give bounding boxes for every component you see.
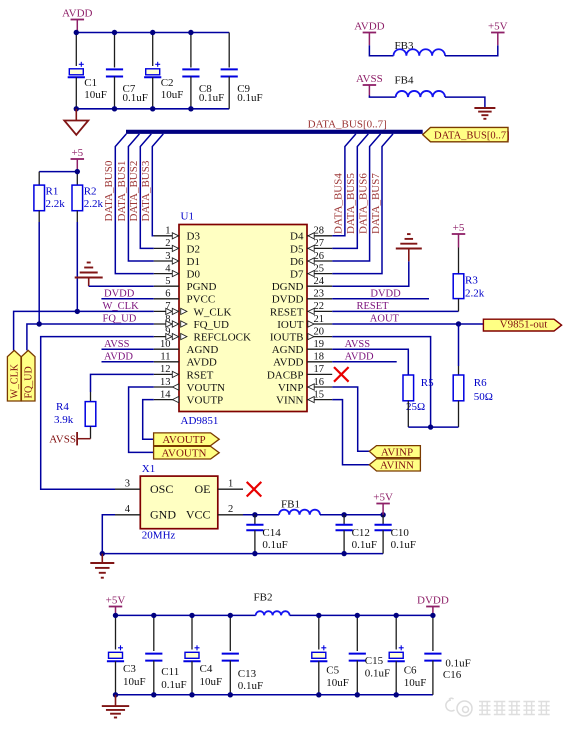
capacitor C15 0.1uF [349,615,390,694]
wire bus entry DATA_BUS6 to pin 26 [332,134,380,261]
junction W_CLK/R2 [75,309,80,314]
wire VINP (pin 16) to AVINP [332,387,369,451]
resistor R6 50ohm [453,324,493,427]
wire REFCLOCK (pin 9 to X1 OSC) [41,337,154,490]
svg-text:DACBP: DACBP [267,369,304,381]
svg-text:D4: D4 [290,231,304,243]
svg-text:16: 16 [314,377,325,388]
wire bus entry DATA_BUS4 to pin 28 [332,134,356,236]
wire top rail of AVDD cap bank [76,32,229,34]
svg-text:FB2: FB2 [254,592,273,604]
svg-text:2: 2 [165,238,170,249]
power +5V (bottom rail) [106,595,126,616]
junction +5V/C10 [380,512,385,517]
svg-text:OE: OE [195,482,211,496]
wire bus entry DATA_BUS5 to pin 27 [332,134,368,249]
svg-text:AVDD: AVDD [345,351,374,362]
wire X1 section bottom rail [102,553,383,555]
svg-text:RESET: RESET [357,301,390,312]
svg-text:VCC: VCC [186,507,211,521]
pin 2 D2 [154,238,200,255]
pin 7 W_CLK [154,301,232,318]
wire X1 GND down to rail [102,515,115,554]
svg-text:25: 25 [314,263,325,274]
junction AOUT/R6 [456,321,461,326]
wire AVSS (pin 19) to R5 [332,349,408,375]
pin 23 DVDD [272,289,332,306]
svg-text:VOUTP: VOUTP [187,395,224,407]
wire VOUTP (pin 14) to AVOUTP [143,400,154,440]
svg-text:10uF: 10uF [84,89,107,101]
pin 27 D5 [290,238,332,255]
ground (bottom rail) [102,695,129,718]
ground (DGND) [396,234,422,261]
pin 24 DGND [272,276,332,293]
svg-text:FQ_UD: FQ_UD [194,319,230,331]
svg-text:0.1uF: 0.1uF [238,680,263,692]
pin 8 FQ_UD [154,314,229,331]
svg-text:DATA_BUS[0..7]: DATA_BUS[0..7] [308,119,387,131]
capacitor C6 10uF [388,615,427,694]
wire bus entry DATA_BUS7 to pin 25 [332,134,393,274]
wire AVDD (pin 18) [332,361,397,363]
wire bottom top rail right [290,614,433,616]
port FQ_UD (vertical) [21,350,35,401]
svg-text:GND: GND [150,507,176,521]
svg-text:DATA_BUS[0..7]: DATA_BUS[0..7] [434,131,510,142]
capacitor C11 0.1uF [145,615,186,694]
svg-text:DATA_BUS4: DATA_BUS4 [333,173,345,234]
capacitor C8 0.1uF [182,33,224,109]
capacitor C2 10uF [144,33,183,109]
svg-text:AGND: AGND [187,344,219,356]
junction C12 bottom [341,551,346,556]
svg-text:22: 22 [314,301,325,312]
junction dots on AVDD rails [74,30,194,112]
svg-text:VINP: VINP [278,382,304,394]
svg-text:24: 24 [314,276,325,287]
svg-text:4: 4 [165,263,171,274]
svg-text:C4: C4 [200,663,213,675]
ferrite bead FB2 [254,592,290,616]
junction +5/R1/R2 [75,169,80,174]
svg-text:28: 28 [314,226,325,237]
svg-text:VOUTN: VOUTN [187,382,226,394]
svg-text:R5: R5 [421,377,434,389]
svg-text:RSET: RSET [187,369,214,381]
wire FQ_UD (pin 8) [27,324,154,350]
wire AVSS (pin 10) [102,348,154,350]
svg-text:DVDD: DVDD [417,595,449,607]
pin 13 VOUTN [154,377,225,394]
junction X1 gnd rail [100,551,105,556]
svg-text:D7: D7 [290,269,304,281]
svg-text:+5: +5 [453,222,465,234]
svg-text:14: 14 [160,389,171,400]
oscillator X1 20MHz body [140,463,218,542]
pin 20 IOUTB [270,326,332,343]
svg-text:AVOUTP: AVOUTP [162,434,205,446]
svg-text:D2: D2 [187,243,200,255]
svg-text:AVINP: AVINP [381,446,413,458]
wire VINN (pin 15) to AVINN [332,400,369,465]
svg-text:0.1uF: 0.1uF [237,92,262,104]
capacitor C10 0.1uF [375,515,416,554]
svg-text:17: 17 [314,364,325,375]
pin 3 D1 [154,251,200,268]
svg-text:AVDD: AVDD [354,21,384,33]
wire PGND [89,285,154,287]
svg-text:C13: C13 [238,668,257,680]
capacitor C4 10uF [183,615,222,694]
port AVOUTN [154,446,220,459]
wire VCC to FB1 row [243,514,279,516]
watermark text [479,702,550,715]
svg-text:V9851-out: V9851-out [500,318,548,330]
svg-text:AVSS: AVSS [356,73,383,85]
capacitor C16 0.1uF [424,615,470,694]
power DVDD (bottom rail) [417,595,449,616]
svg-text:1: 1 [165,226,170,237]
svg-text:19: 19 [314,339,325,350]
ground (X1) [90,554,114,578]
svg-text:12: 12 [160,364,171,375]
pin 2 VCC [218,504,243,515]
svg-text:10uF: 10uF [404,677,427,689]
svg-text:20: 20 [314,326,325,337]
svg-text:DATA_BUS6: DATA_BUS6 [357,173,369,234]
capacitor C14 0.1uF [246,515,287,554]
svg-text:4: 4 [125,504,131,515]
resistor R3 2.2k [453,248,485,312]
svg-text:OSC: OSC [150,482,173,496]
pin 5 PGND [154,276,217,293]
svg-text:W_CLK: W_CLK [103,301,140,312]
power +5 (R3 pullup) [452,222,466,248]
wire bus entry DATA_BUS1 to pin 3 [128,134,153,261]
port AVINP [369,446,420,459]
svg-text:DGND: DGND [272,281,304,293]
pin 1 D3 [154,226,201,243]
capacitor C7 0.1uF [106,33,148,109]
capacitor C9 0.1uF [221,33,263,109]
wire R5/R6 bottom link [408,426,458,428]
pin 6 PVCC [154,289,215,306]
wire bottom top rail left [116,614,256,616]
wire DGND (pin 24) to ground [332,261,409,286]
power +5 (R1 R2 pullups) [71,147,85,172]
wire IOUTB (pin 20) [332,337,430,428]
capacitor C3 10uF [107,615,146,694]
wire AVDD to FB3 [369,45,393,56]
svg-text:2.2k: 2.2k [465,288,485,300]
svg-text:6: 6 [165,289,170,300]
svg-text:D0: D0 [187,269,201,281]
svg-text:AVSS: AVSS [49,434,76,446]
svg-text:C3: C3 [123,663,136,675]
svg-text:D3: D3 [187,231,201,243]
wire bottom rail of AVDD cap bank [76,108,229,110]
pin 26 D6 [290,251,332,268]
no-connect X on pin 17 DACBP [334,367,349,382]
svg-text:D1: D1 [187,256,200,268]
wire W_CLK (pin 7) [14,311,154,350]
wire +5 to R1/R2 [39,171,77,173]
svg-text:C10: C10 [391,527,410,539]
svg-text:2.2k: 2.2k [84,198,104,210]
wire DVDD (pin 6) [101,298,153,300]
svg-text:AVINN: AVINN [380,460,414,472]
power AVSS (below R4) [49,432,90,446]
svg-text:R3: R3 [465,275,478,287]
svg-text:2.2k: 2.2k [46,198,66,210]
svg-text:W_CLK: W_CLK [10,363,21,398]
power AVDD (filter FB3) [354,21,384,46]
svg-text:C5: C5 [326,665,339,677]
power +5V (FB1) [373,492,393,515]
wire DVDD (pin 23) [332,298,429,300]
svg-text:RESET: RESET [270,306,304,318]
svg-text:D6: D6 [290,256,304,268]
svg-text:C16: C16 [443,669,462,681]
svg-text:AVSS: AVSS [104,339,130,350]
svg-text:11: 11 [160,352,170,363]
svg-text:13: 13 [160,377,171,388]
svg-text:0.1uF: 0.1uF [365,668,390,680]
ground (PGND pin 5) [75,263,103,287]
wire FB1 to +5V [320,514,383,516]
svg-text:FQ_UD: FQ_UD [103,314,137,325]
svg-text:C6: C6 [404,665,417,677]
junction FQ_UD/R1 [37,321,42,326]
svg-text:AVSS: AVSS [345,339,371,350]
wire VOUTN (pin 13) to AVOUTN [129,387,154,452]
svg-text:27: 27 [314,238,325,249]
svg-text:2: 2 [228,504,233,515]
pin 9 REFCLOCK [154,326,251,343]
power AVSS (filter FB4) [356,73,383,96]
svg-text:3: 3 [125,478,130,489]
svg-text:IOUTB: IOUTB [270,332,304,344]
junction IOUTB link [428,424,433,429]
ferrite bead FB1 [279,499,320,515]
svg-text:10: 10 [160,339,171,350]
port V9851-out [483,318,561,331]
capacitor C12 0.1uF [336,515,377,554]
pin 15 VINN [276,389,332,406]
svg-text:VINN: VINN [276,395,304,407]
capacitor C5 10uF [310,615,349,694]
svg-text:+5V: +5V [106,595,126,607]
svg-text:AVDD: AVDD [104,351,133,362]
wire bottom bottom rail [116,694,433,696]
svg-text:C11: C11 [161,666,179,678]
junction C12 top [341,512,346,517]
wire FB3 to +5V [445,45,498,56]
wire bus entry DATA_BUS0 to pin 4 [115,134,154,274]
bus DATA_BUS[0..7] [126,130,423,134]
junction C14 top [252,512,257,517]
svg-text:W_CLK: W_CLK [194,306,232,318]
svg-text:20MHz: 20MHz [142,530,176,542]
svg-text:0.1uF: 0.1uF [391,539,416,551]
svg-text:AVOUTN: AVOUTN [161,448,206,460]
svg-text:DVDD: DVDD [272,294,304,306]
svg-text:FQ_UD: FQ_UD [24,366,35,398]
svg-text:0.1uF: 0.1uF [123,92,148,104]
pin 16 VINP [278,377,332,394]
svg-text:10uF: 10uF [200,676,223,688]
port W_CLK (vertical) [7,350,21,401]
svg-text:C14: C14 [262,527,281,539]
svg-text:50Ω: 50Ω [474,391,493,403]
watermark logo [446,698,472,716]
svg-text:21: 21 [314,314,325,325]
svg-text:10uF: 10uF [123,676,146,688]
pin 28 D4 [290,226,332,243]
pin 25 D7 [290,263,332,280]
svg-text:0.1uF: 0.1uF [352,539,377,551]
svg-text:D5: D5 [290,243,304,255]
svg-text:23: 23 [314,289,325,300]
svg-text:5: 5 [165,276,170,287]
svg-text:DVDD: DVDD [370,288,401,299]
svg-text:AVDD: AVDD [62,8,92,20]
svg-text:18: 18 [314,352,325,363]
svg-text:AD9851: AD9851 [181,415,219,427]
pin 21 IOUT [277,314,332,331]
svg-text:0.1uF: 0.1uF [199,92,224,104]
port AVOUTP [154,433,220,446]
svg-text:3: 3 [165,251,170,262]
wire AOUT (pin 21) [332,323,483,325]
svg-text:+5: +5 [71,147,83,159]
svg-text:C15: C15 [365,655,384,667]
svg-text:1: 1 [228,478,233,489]
wire FB4 to ground [445,97,485,108]
svg-text:C2: C2 [161,77,174,89]
pin 14 VOUTP [154,389,223,406]
svg-text:+5V: +5V [488,21,508,33]
svg-text:AVDD: AVDD [273,357,303,369]
svg-text:FB4: FB4 [395,75,414,87]
op-amp U1 AD9851 body [179,211,307,428]
power +5V (filter FB3) [488,21,508,46]
ground (FB4) [474,108,495,119]
ground (triangle) below cap bank [64,109,88,135]
svg-text:0.1uF: 0.1uF [161,679,186,691]
svg-text:+5V: +5V [373,492,393,504]
wire RSET (pin 12) to R4 [91,374,154,392]
pin 4 GND [115,504,140,515]
ferrite bead FB4 [395,75,446,98]
svg-text:DATA_BUS2: DATA_BUS2 [128,161,140,222]
svg-text:FB1: FB1 [281,499,300,511]
svg-text:PVCC: PVCC [187,294,216,306]
svg-text:DATA_BUS1: DATA_BUS1 [116,161,128,222]
wire bus entry DATA_BUS2 to pin 2 [140,134,154,249]
svg-text:R6: R6 [474,377,487,389]
svg-text:REFCLOCK: REFCLOCK [194,332,252,344]
port DATA_BUS[0..7] [423,127,510,141]
svg-text:R2: R2 [84,186,97,198]
svg-text:AVDD: AVDD [187,357,217,369]
svg-text:R1: R1 [46,186,59,198]
pin 4 D0 [154,263,201,280]
svg-text:U1: U1 [181,211,194,223]
junction C14 bottom [252,551,257,556]
svg-text:DATA_BUS7: DATA_BUS7 [370,173,382,234]
pin 12 RSET [154,364,214,381]
pin 18 AVDD [273,352,332,369]
resistor R1 2.2k [34,172,65,324]
svg-text:3.9k: 3.9k [54,414,74,426]
pin 19 AGND [272,339,332,356]
svg-text:26: 26 [314,251,325,262]
svg-text:PGND: PGND [187,281,217,293]
svg-text:AGND: AGND [272,344,304,356]
port AVINN [369,459,420,472]
svg-text:10uF: 10uF [326,677,349,689]
pin 22 RESET [270,301,332,318]
pin 10 AGND [154,339,219,356]
ferrite bead FB3 [394,40,446,56]
pin 3 OSC [115,478,140,489]
svg-text:0.1uF: 0.1uF [445,658,470,670]
resistor R5 25ohm [403,375,434,427]
svg-text:R4: R4 [56,401,69,413]
svg-text:DATA_BUS5: DATA_BUS5 [345,173,357,234]
svg-text:C12: C12 [352,527,370,539]
pin 11 AVDD [154,352,217,369]
capacitor C1 10uF [68,33,107,109]
svg-text:C1: C1 [84,77,97,89]
svg-text:10uF: 10uF [161,89,184,101]
pin 1 OE [218,478,243,489]
resistor R4 3.9k [54,401,96,439]
svg-text:DVDD: DVDD [104,288,135,299]
svg-text:AOUT: AOUT [370,314,400,325]
no-connect X on OE [247,482,262,497]
power AVDD (top-left) [62,8,92,33]
pin 17 DACBP [267,364,332,381]
svg-text:DATA_BUS3: DATA_BUS3 [140,160,152,221]
svg-text:DATA_BUS0: DATA_BUS0 [103,160,115,221]
wire AVDD (pin 11) [102,361,154,363]
svg-text:15: 15 [314,389,325,400]
svg-text:X1: X1 [142,463,155,475]
capacitor C13 0.1uF [222,615,263,694]
svg-text:0.1uF: 0.1uF [262,539,287,551]
svg-text:IOUT: IOUT [277,319,304,331]
junction dots bottom rails [113,613,436,698]
wire AVSS to FB4 [369,96,395,98]
resistor R2 2.2k [72,172,103,312]
wire bus entry DATA_BUS3 to pin 1 [152,134,163,236]
wire RESET (pin 22) [332,310,458,312]
